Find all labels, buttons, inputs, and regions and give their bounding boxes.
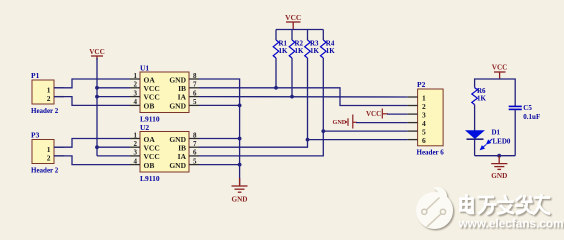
U2 pin 5 stub: [189, 164, 199, 166]
watermark logo traces: [422, 198, 446, 227]
U1 pin 8 stub: [189, 78, 199, 80]
LED D1 triangle: [466, 131, 483, 139]
LED D1 arrow 2: [479, 143, 487, 150]
IC U1 body: [140, 72, 189, 113]
svg-text:1K: 1K: [310, 47, 320, 55]
ground symbol (right): [491, 156, 507, 170]
wire pull-up bus: [276, 29, 323, 31]
U1 pin 1 stub: [130, 78, 140, 80]
svg-text:P3: P3: [31, 131, 40, 140]
svg-text:P1: P1: [31, 71, 40, 80]
junction U2 pin8 / GND bus: [238, 137, 242, 141]
watermark Chinese text (stylised strokes): [460, 195, 549, 213]
wire U1 pin5 to GND bus: [199, 104, 240, 106]
connector P3 pin 1 stub: [54, 146, 64, 148]
wire P3.2 to U2 OB: [54, 156, 130, 165]
connector P3 body: [32, 140, 54, 164]
svg-text:1K: 1K: [477, 94, 487, 102]
U1 pin 3 stub: [130, 96, 140, 98]
svg-text:1K: 1K: [326, 47, 336, 55]
LED D1 cathode bar: [467, 138, 484, 140]
power port VCC at P2 pin3: [382, 109, 388, 119]
svg-text:GND: GND: [169, 102, 186, 111]
junction VCC rail / U1 pin2: [95, 86, 99, 90]
connector P2 body: [418, 89, 444, 146]
wire VCC rail to U2 pin3: [97, 155, 130, 157]
svg-text:D1: D1: [492, 129, 501, 137]
wire U2 pin5 to GND bus: [199, 164, 240, 166]
svg-text:LED0: LED0: [493, 138, 511, 146]
svg-text:VCC: VCC: [144, 93, 160, 102]
svg-text:1K: 1K: [279, 47, 289, 55]
resistor R3 leads: [307, 30, 309, 140]
svg-text:L9110: L9110: [140, 174, 160, 183]
U1 pin 4 stub: [130, 104, 140, 106]
svg-text:Header 2: Header 2: [31, 107, 59, 115]
svg-text:IA: IA: [178, 152, 187, 161]
svg-text:0.1uF: 0.1uF: [523, 113, 540, 121]
wire GND port to P2 pin4: [356, 122, 408, 124]
svg-text:U2: U2: [140, 123, 149, 132]
U2 pin 8 stub: [189, 138, 199, 140]
resistor R4: [320, 40, 326, 58]
junction R4 / P2 pin5 net: [321, 129, 325, 133]
wire P1.1 to U1 OA: [54, 79, 130, 88]
wire VCC vertical rail left: [96, 58, 98, 156]
svg-text:GND: GND: [333, 119, 347, 126]
U2 pin 3 stub: [130, 155, 140, 157]
junction bottom rail / GND stem: [497, 154, 501, 158]
junction U1 pin5 / GND bus: [238, 104, 242, 108]
U1 pin 7 stub: [189, 87, 199, 89]
watermark logo circle: [416, 187, 453, 229]
svg-text:6: 6: [422, 136, 426, 145]
wire U2 pin8 to GND bus: [199, 138, 240, 140]
ground symbol (middle): [232, 178, 248, 192]
svg-text:VCC: VCC: [492, 64, 508, 72]
junction R3 / P2 pin6 net: [306, 138, 310, 142]
svg-text:OB: OB: [144, 161, 155, 170]
IC U2 body: [140, 132, 189, 173]
wire U2 IA to P2 pin5: [199, 131, 408, 156]
resistor R2: [289, 40, 295, 58]
svg-text:www.elecfans.com: www.elecfans.com: [458, 217, 564, 231]
U1 pin 6 stub: [189, 96, 199, 98]
wire VCC rail to U1 pin3: [97, 96, 130, 98]
wire VCC rail to U1 pin2: [97, 87, 130, 89]
power port GND at P2 pin4: [348, 115, 357, 129]
svg-text:C5: C5: [523, 104, 532, 112]
wire VCC rail to U2 pin2: [97, 146, 130, 148]
svg-text:Header 6: Header 6: [417, 149, 445, 157]
junction VCC rail / U2 pin2: [95, 145, 99, 149]
wire R6 to LED anode: [474, 105, 476, 131]
P2 pin 2 stub: [408, 105, 418, 107]
wire VCC port to P2 pin3: [387, 113, 408, 115]
svg-text:VCC: VCC: [285, 13, 301, 22]
resistor R4 leads: [322, 30, 324, 132]
svg-text:2: 2: [47, 94, 51, 103]
wire LED branch top: [475, 79, 516, 106]
svg-text:U1: U1: [140, 64, 149, 73]
connector P1 body: [32, 80, 54, 104]
connector P3 pin 2 stub: [54, 155, 64, 157]
wire C5 to bottom rail: [514, 109, 516, 155]
svg-text:GND: GND: [232, 196, 248, 204]
svg-text:1K: 1K: [295, 47, 305, 55]
resistor R2 leads: [291, 30, 293, 97]
svg-text:GND: GND: [491, 172, 507, 180]
svg-text:VCC: VCC: [89, 48, 105, 56]
power symbol VCC (left): [91, 56, 103, 60]
resistor R3: [305, 40, 311, 58]
svg-text:OB: OB: [144, 102, 155, 111]
svg-text:VCC: VCC: [144, 152, 160, 161]
U2 pin 6 stub: [189, 155, 199, 157]
wire P1.2 to U1 OB: [54, 97, 130, 106]
connector P1 pin 1 stub: [54, 87, 64, 89]
svg-text:Header 2: Header 2: [31, 167, 59, 175]
P2 pin 5 stub: [408, 130, 418, 132]
svg-text:GND: GND: [169, 161, 186, 170]
resistor R6: [472, 88, 478, 105]
junction R2 / U1 IA: [290, 95, 294, 99]
junction R1 / U1 IB: [274, 86, 278, 90]
junction VCC rail / U1 pin3: [95, 95, 99, 99]
wire P3.1 to U2 OA: [54, 139, 130, 148]
P2 pin 6 stub: [408, 139, 418, 141]
U2 pin 1 stub: [130, 138, 140, 140]
LED D1 arrow 1: [486, 138, 494, 145]
wire U1 IB to P2 pin2: [199, 88, 408, 106]
wire U1 pin8 to GND bus: [199, 79, 240, 185]
power symbol VCC (top): [286, 22, 301, 30]
U2 pin 7 stub: [189, 146, 199, 148]
P2 pin 4 stub: [408, 122, 418, 124]
power symbol VCC (right): [494, 72, 506, 79]
U1 pin 5 stub: [189, 104, 199, 106]
resistor R1: [273, 40, 279, 58]
capacitor C5 plate top: [509, 105, 522, 107]
U2 pin 2 stub: [130, 146, 140, 148]
wire U1 IA to P2 pin1: [199, 96, 408, 98]
wire U2 IB to P2 pin6: [199, 140, 408, 148]
U2 pin 4 stub: [130, 164, 140, 166]
connector P1 pin 2 stub: [54, 96, 64, 98]
power port GND dot: [345, 121, 347, 123]
resistor R1 leads: [275, 30, 277, 88]
svg-text:P2: P2: [417, 80, 426, 89]
svg-text:IA: IA: [178, 93, 187, 102]
P2 pin 1 stub: [408, 96, 418, 98]
capacitor C5 plate bottom: [509, 108, 522, 110]
U1 pin 2 stub: [130, 87, 140, 89]
wire LED cathode to bottom rail: [474, 139, 476, 156]
P2 pin 3 stub: [408, 113, 418, 115]
junction U2 pin5 / GND bus: [238, 163, 242, 167]
svg-text:VCC: VCC: [366, 110, 381, 118]
svg-text:2: 2: [47, 154, 51, 163]
wire LED branch bottom rail: [475, 155, 516, 157]
